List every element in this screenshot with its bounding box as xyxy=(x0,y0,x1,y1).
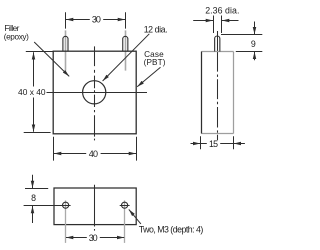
dimension 2.36 dia.: dimension line with arrows xyxy=(193,20,238,22)
leader for Case label xyxy=(137,67,160,87)
dimension 9 (pin height): dimension line with arrows xyxy=(254,22,256,61)
leader for Filler label xyxy=(34,42,69,76)
front view: right pin outline xyxy=(123,36,128,51)
dimension 40 x 40 (left): dimension line with arrows xyxy=(33,52,35,132)
svg-text:30: 30 xyxy=(92,15,101,25)
front view: vertical centerline xyxy=(94,46,96,140)
svg-text:2.36 dia.: 2.36 dia. xyxy=(205,5,239,15)
dimension 9 (pin height): lower extension line xyxy=(236,51,262,53)
dimension 40 x 40 (left): top extension tick xyxy=(26,51,53,53)
dimension 2.36 dia.: extension lines xyxy=(214,16,222,34)
bottom view: right hole horizontal tick xyxy=(120,205,130,207)
bottom view: left hole vertical centerline (grey) xyxy=(65,200,67,243)
svg-text:15: 15 xyxy=(209,139,218,149)
dimension 40 x 40 (left): text xyxy=(17,88,47,97)
dimension 30 (bottom view): dimension line with arrows xyxy=(66,237,124,239)
front view: case square outline xyxy=(53,51,136,134)
dimension 9 (pin height): upper extension line xyxy=(221,34,262,36)
dimension 30 (top): extension lines xyxy=(66,12,126,28)
dimension 8: text xyxy=(30,194,38,202)
svg-text:40 x 40: 40 x 40 xyxy=(18,87,46,97)
side view: body left edge (black) xyxy=(201,52,203,134)
svg-text:(PBT): (PBT) xyxy=(144,58,166,67)
side view: centerline xyxy=(217,31,219,52)
bottom view: left M3 hole xyxy=(63,202,69,208)
front view: center circle (12 dia.) xyxy=(83,81,106,104)
dimension 8: dimension line with arrows xyxy=(32,175,34,223)
svg-text:12 dia.: 12 dia. xyxy=(144,25,168,35)
svg-text:40: 40 xyxy=(89,149,98,159)
bottom view: body outline rectangle xyxy=(54,188,136,225)
side view: body right edge (grey) xyxy=(233,52,235,134)
svg-text:9: 9 xyxy=(251,39,256,49)
front view: horizontal centerline xyxy=(46,92,147,94)
side view: body bottom edge (grey) xyxy=(202,133,234,135)
side view: body top edge (grey) xyxy=(202,51,234,53)
side view: pin outline xyxy=(215,36,220,52)
dimension 40 (bottom): dimension line with arrows xyxy=(54,153,136,155)
front view: right pin hidden line (grey) xyxy=(125,30,127,70)
dimension 40 x 40 (left): bottom extension tick xyxy=(24,132,51,134)
bottom view: right M3 hole xyxy=(122,202,128,208)
dimension 15 (bottom of side view): dimension line with arrows xyxy=(191,143,245,145)
dimension 30 (top): dimension line with arrows xyxy=(66,19,125,21)
dimension 15 (bottom of side view): extension lines xyxy=(201,136,234,149)
leader for 12 dia. label xyxy=(103,34,150,81)
bottom view: vertical centerline xyxy=(94,185,96,231)
bottom view: left hole horizontal centerline xyxy=(24,205,71,207)
bottom view: right hole vertical centerline (grey) xyxy=(124,200,126,243)
dimension 8: top extension tick xyxy=(25,188,48,190)
front view: left pin outline xyxy=(63,36,68,51)
front view: left pin hidden line (grey) xyxy=(65,30,67,70)
dimension 40 (bottom): extension lines xyxy=(54,137,137,161)
leader for Two, M3 label xyxy=(129,209,141,224)
svg-text:30: 30 xyxy=(89,233,98,243)
svg-text:8: 8 xyxy=(31,193,36,203)
svg-text:Two, M3 (depth: 4): Two, M3 (depth: 4) xyxy=(139,225,204,235)
svg-text:(epoxy): (epoxy) xyxy=(4,33,29,42)
